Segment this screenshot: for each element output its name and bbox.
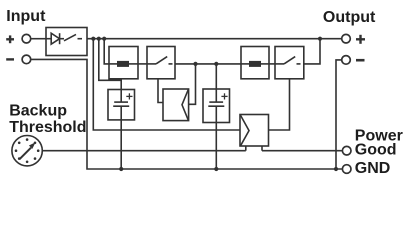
wire bus to capacitor C1 top [99, 39, 121, 90]
comparator U2 chevron [241, 115, 250, 146]
svg-text:Backup: Backup [9, 102, 67, 119]
terminal output + [342, 34, 351, 43]
terminal gnd [342, 165, 351, 174]
wire to converter right side [189, 64, 196, 104]
resistor box R2 [241, 47, 269, 79]
terminal input - [22, 55, 31, 64]
capacitor box C2 [203, 89, 230, 123]
decoupling box K1 [46, 28, 87, 56]
wire R2 to S2 [269, 63, 275, 65]
node bus junction 2 [97, 37, 101, 41]
comparator left leg to power good line [245, 146, 247, 151]
wire power good line right [262, 150, 342, 152]
wire input - to gnd rail [31, 59, 343, 169]
capacitor C1 element [113, 90, 132, 120]
node charge bus to C2 [214, 62, 218, 66]
wire S2 bottom to comparator output [269, 79, 290, 130]
terminal power good [342, 146, 351, 155]
switch S1 element [147, 57, 173, 64]
potentiometer backup threshold [12, 136, 42, 166]
node bus junction 3 [102, 37, 106, 41]
node bus junction 1 [91, 37, 95, 41]
wire input+ to decoupling box [31, 38, 46, 40]
wire power good line left [42, 150, 246, 152]
switch box S1 [147, 47, 175, 79]
wire C2 bottom to gnd rail [215, 123, 217, 170]
svg-text:Output: Output [323, 9, 376, 26]
comparator right leg to power good line [261, 146, 263, 151]
node C1 gnd junction [119, 167, 123, 171]
svg-text:GND: GND [355, 160, 391, 177]
input + polarity sign [6, 35, 14, 43]
wire C1 bottom to gnd rail [120, 120, 122, 169]
node bus junction output [318, 37, 322, 41]
wire R1 to S1 [138, 63, 147, 65]
wire bus to resistor R1 [104, 39, 109, 64]
comparator U2 box [240, 115, 269, 147]
switch S0 in decoupling box [64, 34, 82, 40]
converter U1 box [163, 89, 189, 121]
node charge bus to converter [193, 62, 197, 66]
switch box S2 [275, 47, 304, 79]
node output - gnd junction [334, 167, 338, 171]
resistor R2 element [241, 61, 269, 67]
wire S1 bottom to converter left side [158, 79, 163, 103]
wire output - down [336, 60, 342, 169]
diode D1 [46, 33, 64, 44]
svg-text:Input: Input [6, 8, 46, 25]
wire + bus [87, 38, 342, 40]
output + polarity sign [356, 35, 365, 44]
capacitor C2 element [208, 89, 227, 123]
svg-text:Good: Good [355, 141, 397, 158]
svg-text:Threshold: Threshold [9, 119, 86, 136]
output - polarity sign [356, 59, 365, 62]
terminal output - [342, 56, 351, 65]
input - polarity sign [6, 58, 14, 60]
converter U1 chevron [182, 90, 188, 121]
terminal input + [22, 34, 31, 43]
switch S2 element [275, 57, 301, 64]
resistor box R1 [109, 47, 138, 79]
capacitor box C1 [108, 90, 135, 120]
wire bus to comparator [93, 39, 240, 130]
wire to capacitor C2 top [215, 64, 217, 89]
wire S1 to R2 charging bus [175, 63, 241, 65]
resistor R1 element [109, 61, 138, 67]
node C2 gnd junction [214, 167, 218, 171]
wire S2 to + bus [304, 39, 320, 64]
